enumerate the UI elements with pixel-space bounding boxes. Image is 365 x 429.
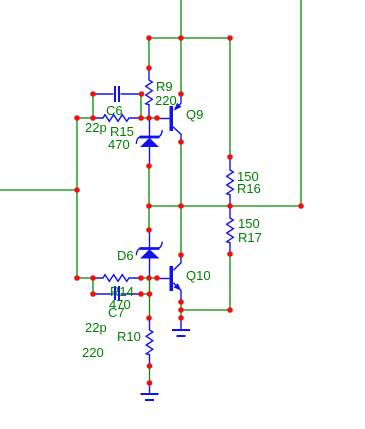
- svg-text:D6: D6: [117, 248, 134, 263]
- svg-text:470: 470: [108, 137, 130, 152]
- svg-text:R16: R16: [237, 181, 261, 196]
- svg-text:C6: C6: [106, 103, 123, 118]
- svg-text:22p: 22p: [85, 120, 107, 135]
- svg-text:R17: R17: [238, 230, 262, 245]
- svg-text:C7: C7: [108, 305, 125, 320]
- svg-text:220: 220: [155, 93, 177, 108]
- svg-text:220: 220: [82, 345, 104, 360]
- svg-text:Q9: Q9: [186, 107, 203, 122]
- svg-text:150: 150: [238, 216, 260, 231]
- svg-text:Q10: Q10: [186, 268, 211, 283]
- svg-text:R9: R9: [156, 79, 173, 94]
- svg-text:R10: R10: [117, 329, 141, 344]
- svg-text:22p: 22p: [85, 320, 107, 335]
